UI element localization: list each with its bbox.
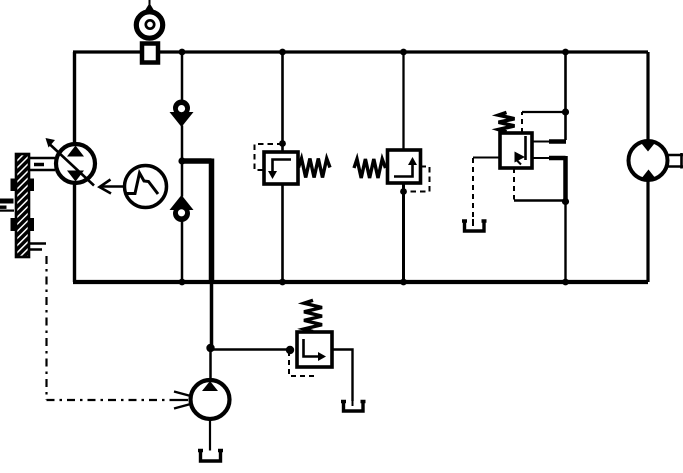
wire check-valve branch <box>181 52 184 282</box>
feedback controller circle <box>125 166 167 208</box>
drive housing hatched bar <box>11 154 35 257</box>
pilot line V2 <box>404 167 430 192</box>
spring V1 <box>299 159 331 178</box>
pilot line V1 <box>255 144 283 170</box>
pressure reducing valve V3 <box>462 112 566 231</box>
spring V3 <box>499 112 515 132</box>
pilot top V3 <box>521 112 523 133</box>
check valve CV2 <box>170 195 194 222</box>
wire reducing valve branch upper <box>564 52 567 140</box>
feedback arrow to pump <box>100 180 125 194</box>
pilot bottom V3 <box>513 168 515 200</box>
tank T3 <box>198 451 223 462</box>
bottom bracket of housing <box>29 244 46 250</box>
auxiliary pump P2 <box>191 380 230 461</box>
wire thick drain elbow <box>182 159 212 283</box>
hydraulic motor M1 <box>629 141 683 180</box>
pressure gauge <box>136 0 162 38</box>
gauge block <box>142 44 158 63</box>
drive shaft to pump <box>29 158 55 170</box>
wire reducing valve outlet <box>532 157 550 159</box>
wire relief valve 1 branch <box>281 52 284 282</box>
wire V4 outlet <box>332 350 353 402</box>
check valve CV1 <box>170 100 194 128</box>
wire right vertical motor line <box>646 52 649 282</box>
wire reducing valve inlet stub <box>532 141 550 143</box>
junction nodes <box>178 49 569 355</box>
left stub pipe <box>0 199 14 212</box>
spring V2 <box>354 159 386 178</box>
bottom relief valve V4 <box>211 300 366 411</box>
tank T2 <box>341 402 366 412</box>
variable displacement pump P1 <box>56 144 95 183</box>
wire left vertical pump line <box>73 52 76 282</box>
tank T1 <box>462 221 487 231</box>
wire P2 to tank <box>209 419 211 451</box>
wire V4 inlet <box>211 348 291 351</box>
relief valve V2 <box>354 150 430 192</box>
wire top bus <box>73 50 648 53</box>
relief valve V1 <box>255 144 331 184</box>
pump variability arrow <box>46 138 95 186</box>
spring V4 <box>304 300 322 331</box>
drive linkage dash-dot <box>47 256 193 409</box>
wire relief valve 2 branch <box>402 52 404 150</box>
pilot line V4 <box>289 351 314 376</box>
motor shaft <box>668 153 683 169</box>
wire bottom bus <box>73 280 648 284</box>
drain line V3 <box>473 157 500 159</box>
